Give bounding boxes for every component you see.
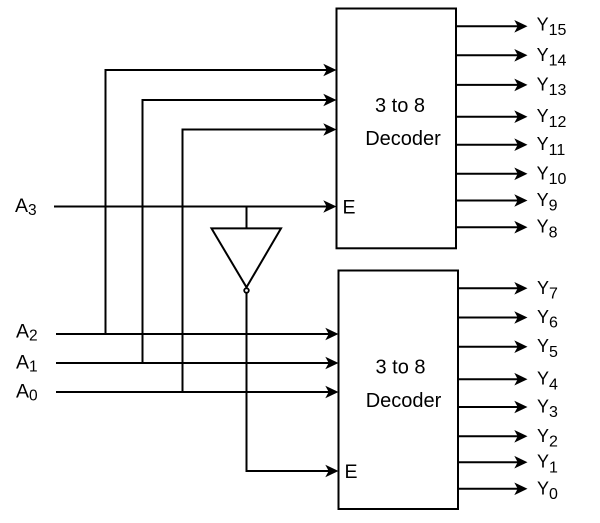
svg-text:Decoder: Decoder: [365, 128, 441, 150]
svg-text:3 to 8: 3 to 8: [375, 357, 425, 379]
svg-text:E: E: [343, 197, 356, 219]
svg-text:E: E: [345, 461, 358, 483]
svg-text:Decoder: Decoder: [366, 390, 442, 412]
svg-text:3 to 8: 3 to 8: [375, 95, 425, 117]
